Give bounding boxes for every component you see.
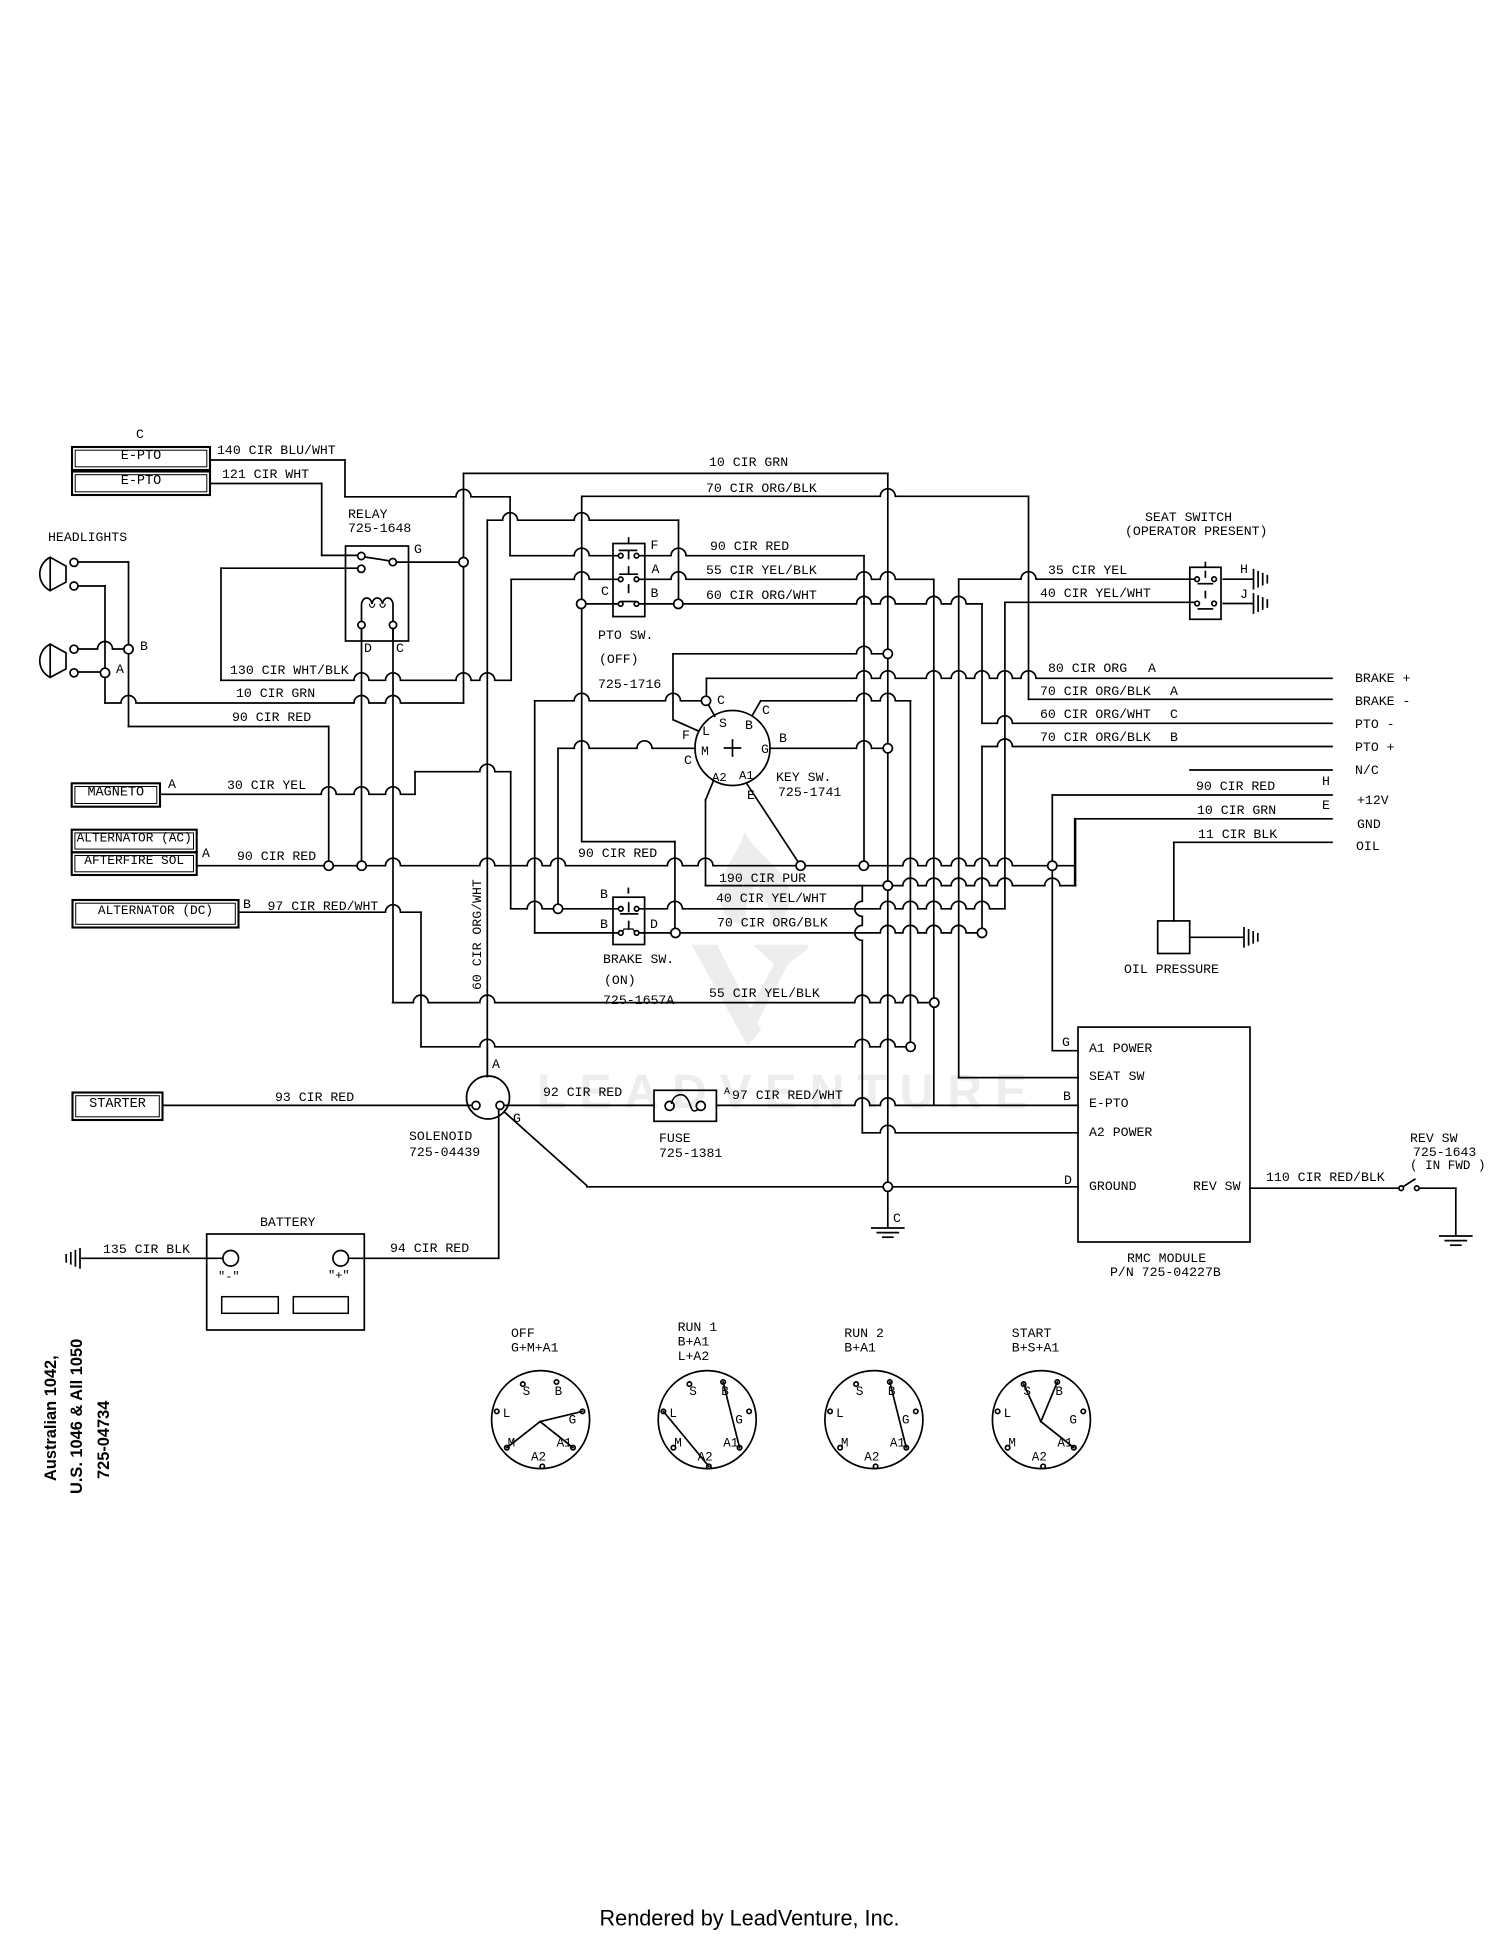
svg-text:A2: A2 — [864, 1451, 879, 1465]
svg-text:M: M — [674, 1436, 682, 1450]
svg-text:70 CIR ORG/BLK: 70 CIR ORG/BLK — [1040, 684, 1151, 699]
svg-text:RUN 1: RUN 1 — [678, 1320, 718, 1335]
svg-text:S: S — [856, 1385, 864, 1399]
svg-text:C: C — [1170, 707, 1178, 722]
svg-text:SEAT SWITCH: SEAT SWITCH — [1145, 510, 1232, 525]
svg-text:55 CIR YEL/BLK: 55 CIR YEL/BLK — [709, 986, 820, 1001]
svg-text:70 CIR ORG/BLK: 70 CIR ORG/BLK — [717, 916, 828, 931]
svg-text:130 CIR WHT/BLK: 130 CIR WHT/BLK — [230, 663, 349, 678]
svg-text:C: C — [396, 641, 404, 656]
svg-text:A1: A1 — [723, 1436, 738, 1450]
svg-text:G+M+A1: G+M+A1 — [511, 1341, 559, 1356]
svg-text:S: S — [1023, 1385, 1031, 1399]
svg-text:"-": "-" — [218, 1270, 240, 1284]
svg-text:B: B — [140, 639, 148, 654]
svg-text:A: A — [202, 846, 210, 861]
svg-text:A2: A2 — [698, 1451, 713, 1465]
svg-text:C: C — [136, 427, 144, 442]
svg-text:RELAY: RELAY — [348, 507, 388, 522]
svg-text:BRAKE SW.: BRAKE SW. — [603, 952, 674, 967]
svg-text:B: B — [600, 887, 608, 902]
svg-text:ALTERNATOR (AC): ALTERNATOR (AC) — [77, 831, 192, 846]
svg-text:725-1648: 725-1648 — [348, 521, 411, 536]
svg-text:OIL: OIL — [1356, 839, 1380, 854]
svg-text:A: A — [652, 562, 660, 577]
svg-text:G: G — [513, 1111, 521, 1126]
svg-text:C: C — [762, 703, 770, 718]
svg-text:(OPERATOR PRESENT): (OPERATOR PRESENT) — [1125, 524, 1267, 539]
svg-text:A2: A2 — [1032, 1451, 1047, 1465]
svg-text:D: D — [1064, 1173, 1072, 1188]
svg-text:B: B — [1170, 730, 1178, 745]
svg-text:725-1381: 725-1381 — [659, 1146, 722, 1161]
svg-text:10 CIR GRN: 10 CIR GRN — [709, 455, 788, 470]
svg-text:40 CIR YEL/WHT: 40 CIR YEL/WHT — [716, 891, 827, 906]
svg-text:90 CIR RED: 90 CIR RED — [237, 849, 316, 864]
svg-text:G: G — [414, 542, 422, 557]
svg-text:(ON): (ON) — [604, 973, 636, 988]
svg-text:C: C — [717, 693, 725, 708]
svg-text:Rendered by LeadVenture, Inc.: Rendered by LeadVenture, Inc. — [600, 1906, 900, 1931]
svg-text:U.S. 1046 & All 1050: U.S. 1046 & All 1050 — [68, 1339, 86, 1494]
svg-text:A1 POWER: A1 POWER — [1089, 1041, 1152, 1056]
svg-text:60 CIR ORG/WHT: 60 CIR ORG/WHT — [706, 588, 817, 603]
svg-text:RUN 2: RUN 2 — [844, 1326, 884, 1341]
svg-text:A: A — [492, 1057, 500, 1072]
svg-text:A: A — [168, 777, 176, 792]
svg-text:E-PTO: E-PTO — [1089, 1096, 1129, 1111]
svg-text:M: M — [1008, 1436, 1016, 1450]
svg-text:C: C — [601, 584, 609, 599]
svg-text:PTO -: PTO - — [1355, 717, 1395, 732]
svg-text:ALTERNATOR (DC): ALTERNATOR (DC) — [98, 903, 213, 918]
svg-text:B: B — [555, 1385, 563, 1399]
svg-text:B+S+A1: B+S+A1 — [1012, 1341, 1060, 1356]
svg-text:92 CIR RED: 92 CIR RED — [543, 1085, 622, 1100]
svg-text:G: G — [902, 1413, 910, 1427]
svg-text:E: E — [747, 788, 755, 803]
svg-text:A1: A1 — [557, 1436, 572, 1450]
svg-text:E-PTO: E-PTO — [121, 449, 162, 464]
svg-text:B: B — [721, 1385, 729, 1399]
svg-text:KEY SW.: KEY SW. — [776, 770, 831, 785]
svg-text:N/C: N/C — [1355, 763, 1379, 778]
svg-text:START: START — [1012, 1326, 1052, 1341]
svg-text:B: B — [1055, 1385, 1063, 1399]
svg-text:Australian 1042,: Australian 1042, — [42, 1355, 60, 1481]
svg-text:SEAT SW: SEAT SW — [1089, 1069, 1144, 1084]
svg-text:H: H — [1322, 774, 1330, 789]
svg-text:B: B — [779, 731, 787, 746]
svg-text:G: G — [1069, 1413, 1077, 1427]
svg-text:REV SW: REV SW — [1410, 1131, 1458, 1146]
svg-text:GROUND: GROUND — [1089, 1179, 1137, 1194]
svg-text:A: A — [116, 662, 124, 677]
svg-text:A1: A1 — [890, 1436, 905, 1450]
svg-text:80 CIR ORG: 80 CIR ORG — [1048, 661, 1127, 676]
svg-text:M: M — [508, 1436, 516, 1450]
svg-text:10 CIR GRN: 10 CIR GRN — [236, 686, 315, 701]
svg-text:L+A2: L+A2 — [678, 1349, 710, 1364]
svg-text:FUSE: FUSE — [659, 1131, 691, 1146]
svg-text:PTO SW.: PTO SW. — [598, 628, 653, 643]
svg-text:190 CIR PUR: 190 CIR PUR — [719, 871, 806, 886]
svg-text:11 CIR BLK: 11 CIR BLK — [1198, 827, 1277, 842]
svg-text:D: D — [650, 917, 658, 932]
svg-text:90 CIR RED: 90 CIR RED — [578, 846, 657, 861]
svg-text:C: C — [893, 1211, 901, 1226]
svg-text:M: M — [701, 744, 709, 759]
svg-text:OIL PRESSURE: OIL PRESSURE — [1124, 962, 1219, 977]
svg-text:A: A — [1148, 661, 1156, 676]
svg-text:97 CIR RED/WHT: 97 CIR RED/WHT — [732, 1088, 843, 1103]
svg-text:B: B — [1063, 1089, 1071, 1104]
svg-text:725-04734: 725-04734 — [95, 1400, 113, 1479]
svg-text:35 CIR YEL: 35 CIR YEL — [1048, 563, 1127, 578]
svg-text:OFF: OFF — [511, 1326, 535, 1341]
svg-text:H: H — [1240, 562, 1248, 577]
svg-text:G: G — [1062, 1035, 1070, 1050]
svg-text:STARTER: STARTER — [89, 1097, 146, 1112]
svg-text:BRAKE +: BRAKE + — [1355, 671, 1410, 686]
svg-text:70 CIR ORG/BLK: 70 CIR ORG/BLK — [706, 481, 817, 496]
svg-text:121 CIR WHT: 121 CIR WHT — [222, 467, 309, 482]
svg-text:60 CIR ORG/WHT: 60 CIR ORG/WHT — [470, 879, 485, 990]
svg-text:90 CIR RED: 90 CIR RED — [710, 539, 789, 554]
svg-text:G: G — [569, 1413, 577, 1427]
svg-text:A2: A2 — [712, 771, 727, 785]
svg-text:B: B — [243, 897, 251, 912]
svg-text:MAGNETO: MAGNETO — [87, 786, 144, 801]
svg-text:A: A — [1170, 684, 1178, 699]
svg-text:A1: A1 — [739, 769, 754, 783]
svg-text:F: F — [682, 728, 690, 743]
svg-text:60 CIR ORG/WHT: 60 CIR ORG/WHT — [1040, 707, 1151, 722]
svg-text:E-PTO: E-PTO — [121, 474, 162, 489]
svg-text:30 CIR YEL: 30 CIR YEL — [227, 778, 306, 793]
svg-text:90 CIR RED: 90 CIR RED — [1196, 779, 1275, 794]
svg-text:+12V: +12V — [1357, 793, 1389, 808]
svg-text:GND: GND — [1357, 817, 1381, 832]
svg-text:B: B — [600, 917, 608, 932]
svg-text:S: S — [523, 1385, 531, 1399]
svg-text:SOLENOID: SOLENOID — [409, 1129, 472, 1144]
svg-text:90 CIR RED: 90 CIR RED — [232, 710, 311, 725]
svg-text:B+A1: B+A1 — [844, 1341, 876, 1356]
svg-text:110 CIR RED/BLK: 110 CIR RED/BLK — [1266, 1170, 1385, 1185]
svg-text:B: B — [745, 718, 753, 733]
svg-text:REV SW: REV SW — [1193, 1179, 1241, 1194]
svg-text:A2 POWER: A2 POWER — [1089, 1125, 1152, 1140]
svg-text:S: S — [719, 716, 727, 731]
svg-text:HEADLIGHTS: HEADLIGHTS — [48, 530, 127, 545]
svg-text:B: B — [651, 586, 659, 601]
svg-text:40 CIR YEL/WHT: 40 CIR YEL/WHT — [1040, 586, 1151, 601]
svg-text:S: S — [689, 1385, 697, 1399]
svg-text:70 CIR ORG/BLK: 70 CIR ORG/BLK — [1040, 730, 1151, 745]
svg-text:G: G — [735, 1413, 743, 1427]
svg-text:140 CIR BLU/WHT: 140 CIR BLU/WHT — [217, 443, 336, 458]
svg-text:725-04439: 725-04439 — [409, 1145, 480, 1160]
svg-text:L: L — [669, 1407, 677, 1421]
svg-text:E: E — [1322, 798, 1330, 813]
svg-text:J: J — [1240, 587, 1248, 602]
svg-text:A2: A2 — [531, 1451, 546, 1465]
svg-text:F: F — [651, 538, 659, 553]
svg-text:10 CIR GRN: 10 CIR GRN — [1197, 803, 1276, 818]
svg-text:B+A1: B+A1 — [678, 1335, 710, 1350]
svg-text:93 CIR RED: 93 CIR RED — [275, 1090, 354, 1105]
svg-text:BRAKE -: BRAKE - — [1355, 694, 1410, 709]
svg-text:L: L — [503, 1407, 511, 1421]
svg-text:725-1716: 725-1716 — [598, 677, 661, 692]
svg-text:G: G — [761, 742, 769, 757]
svg-text:55 CIR YEL/BLK: 55 CIR YEL/BLK — [706, 563, 817, 578]
svg-text:L: L — [1004, 1407, 1012, 1421]
svg-text:L: L — [702, 724, 710, 739]
svg-text:(OFF): (OFF) — [599, 652, 639, 667]
svg-text:( IN FWD ): ( IN FWD ) — [1410, 1159, 1486, 1173]
svg-text:"+": "+" — [328, 1269, 350, 1283]
svg-text:A: A — [724, 1087, 730, 1098]
svg-text:P/N 725-04227B: P/N 725-04227B — [1110, 1265, 1221, 1280]
svg-text:C: C — [684, 753, 692, 768]
svg-text:94 CIR RED: 94 CIR RED — [390, 1241, 469, 1256]
svg-text:A1: A1 — [1057, 1436, 1072, 1450]
svg-text:D: D — [364, 641, 372, 656]
svg-text:M: M — [841, 1436, 849, 1450]
svg-text:B: B — [888, 1385, 896, 1399]
svg-text:AFTERFIRE SOL: AFTERFIRE SOL — [84, 853, 184, 868]
svg-text:725-1643: 725-1643 — [1413, 1145, 1476, 1160]
svg-text:135 CIR BLK: 135 CIR BLK — [103, 1242, 190, 1257]
svg-text:L: L — [836, 1407, 844, 1421]
svg-text:RMC MODULE: RMC MODULE — [1127, 1251, 1206, 1266]
svg-text:BATTERY: BATTERY — [260, 1215, 315, 1230]
svg-text:725-1657A: 725-1657A — [603, 993, 674, 1008]
svg-text:97 CIR RED/WHT: 97 CIR RED/WHT — [268, 899, 379, 914]
svg-text:725-1741: 725-1741 — [778, 785, 841, 800]
svg-text:PTO +: PTO + — [1355, 740, 1395, 755]
